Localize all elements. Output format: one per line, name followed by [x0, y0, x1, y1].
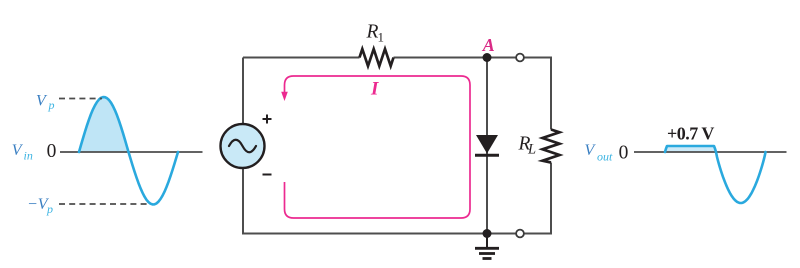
- svg-text:p: p: [48, 98, 55, 112]
- svg-text:p: p: [46, 202, 53, 216]
- svg-text:0: 0: [619, 143, 629, 164]
- svg-text:0: 0: [47, 141, 57, 162]
- svg-text:in: in: [24, 149, 33, 163]
- svg-text:A: A: [482, 35, 495, 55]
- svg-text:+0.7 V: +0.7 V: [667, 124, 714, 144]
- svg-text:I: I: [370, 79, 379, 100]
- svg-text:1: 1: [378, 30, 385, 45]
- svg-text:out: out: [597, 150, 613, 164]
- svg-text:L: L: [527, 142, 536, 158]
